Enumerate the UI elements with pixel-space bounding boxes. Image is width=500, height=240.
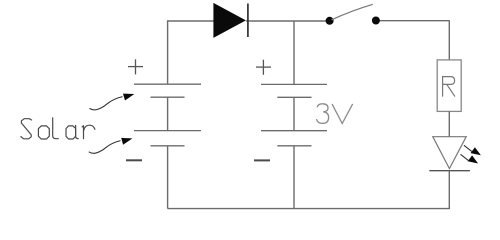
- wire LED to bottom: [448, 171, 450, 209]
- battery B2 3V: [261, 21, 327, 209]
- LED emission arrow lower: [461, 154, 479, 163]
- minus label of battery B2: [254, 159, 270, 161]
- wire left vertical (top corner to solar cell): [167, 20, 169, 84]
- minus label of solar cell: [126, 159, 142, 161]
- switch S1: [326, 4, 380, 25]
- wire top left segment: [168, 20, 214, 22]
- annotation arrow to upper plate: [90, 94, 135, 110]
- wire right vertical (corner to resistor): [448, 20, 450, 60]
- plus label of battery B2: [256, 60, 271, 75]
- wire top right segment (switch to right corner): [380, 20, 450, 22]
- annotation arrow to lower plate: [89, 138, 133, 153]
- diode D1: [213, 3, 248, 38]
- wire resistor to LED: [448, 111, 450, 136]
- text Solar: [21, 118, 95, 139]
- wire bottom horizontal: [168, 208, 450, 210]
- resistor R: [437, 60, 461, 112]
- plus label of solar cell: [128, 59, 143, 74]
- solar cell B1: [134, 84, 201, 208]
- value label 3V: [317, 104, 353, 124]
- LED D2: [429, 137, 470, 171]
- LED emission arrow upper: [464, 145, 481, 155]
- wire top mid segment (diode cathode to switch): [246, 20, 326, 22]
